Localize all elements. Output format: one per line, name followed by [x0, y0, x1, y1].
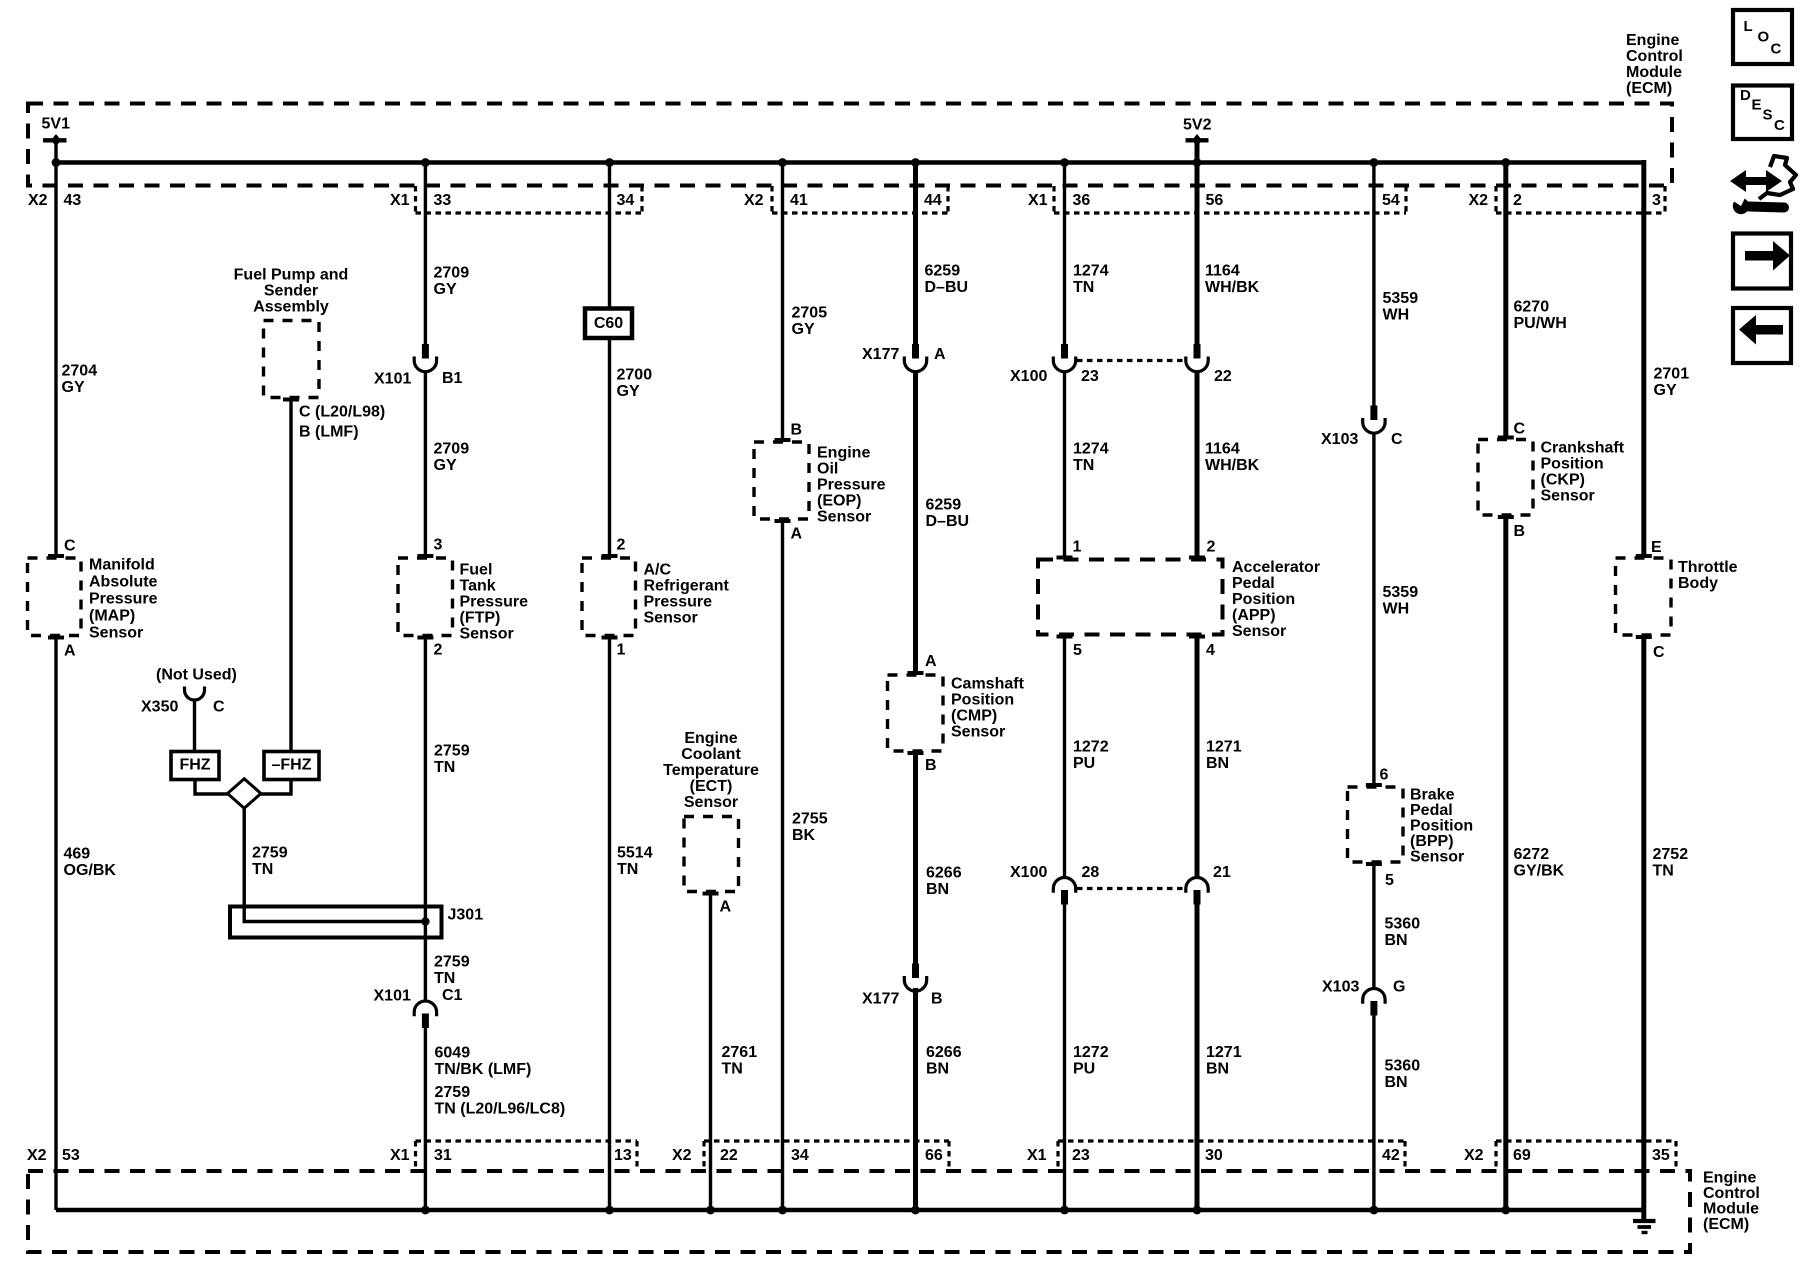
junction dot top bus x=1373.9 — [1370, 158, 1379, 167]
svg-text:2700: 2700 — [617, 367, 653, 384]
svg-text:B: B — [925, 757, 937, 774]
svg-text:Engine: Engine — [684, 730, 737, 747]
junction dot top bus x=1505.8 — [1501, 158, 1510, 167]
svg-text:TN: TN — [434, 759, 455, 776]
svg-text:G: G — [1393, 979, 1405, 996]
wire 6259 D-BU / 6266 BN (CMP sensor circuit) x=915.5 y162-345 — [913, 162, 918, 345]
svg-text:BN: BN — [1206, 755, 1229, 772]
svg-text:53: 53 — [62, 1147, 80, 1164]
svg-text:TN: TN — [1653, 863, 1674, 880]
sensor CKP dashed box — [1478, 440, 1533, 516]
svg-text:1: 1 — [1073, 539, 1082, 556]
svg-text:C: C — [1771, 41, 1782, 58]
wire 1274 TN / 1272 PU (APP sensor circuit) x=1064.5 y904.3-1210 — [1063, 904, 1066, 1210]
wire diamond to J301 — [242, 808, 245, 906]
wire 5359 WH / 5360 BN (BPP sensor circuit) x=1373.9 y862-988.5 — [1372, 862, 1375, 989]
connector group dotted outline top 1054-1406 — [1054, 211, 1406, 214]
ECM bottom dashed box (Engine Control Module) — [28, 1171, 1690, 1252]
wire 2700 GY (A/C refrigerant pressure circuit) x=609.5 y162-308.5 — [608, 162, 611, 309]
wire X350 not-used lead x=194.5 y700-751.5 — [193, 700, 196, 752]
wire 2709 GY / 2759 TN (FTP sensor circuit) x=425.4 y635.5-1001 — [424, 636, 427, 1002]
svg-text:66: 66 — [925, 1147, 943, 1164]
svg-text:X177: X177 — [862, 346, 899, 363]
svg-text:5: 5 — [1073, 642, 1082, 659]
node 5V1 terminal bar — [43, 138, 67, 142]
svg-text:B (LMF): B (LMF) — [299, 424, 359, 441]
svg-text:34: 34 — [791, 1147, 809, 1164]
connector X100 28 — [1053, 878, 1075, 893]
svg-text:X1: X1 — [390, 1147, 410, 1164]
ground symbol ECM — [1641, 1210, 1646, 1219]
svg-text:WH/BK: WH/BK — [1205, 457, 1260, 474]
svg-text:31: 31 — [434, 1147, 452, 1164]
sensor FTP dashed box — [398, 558, 453, 636]
ECM top dashed box (Engine Control Module) — [28, 104, 1672, 186]
junction dot top bus x=609.5 — [605, 158, 614, 167]
svg-text:2705: 2705 — [792, 305, 828, 322]
pin tick BPP top — [1366, 783, 1382, 787]
svg-text:Pedal: Pedal — [1410, 802, 1453, 819]
svg-text:2752: 2752 — [1653, 846, 1689, 863]
connector group dotted outline top 772-948 — [772, 211, 948, 214]
svg-text:Coolant: Coolant — [681, 746, 741, 763]
svg-text:5514: 5514 — [617, 845, 653, 862]
svg-text:GY: GY — [434, 457, 457, 474]
svg-text:Fuel: Fuel — [460, 562, 493, 579]
svg-text:6266: 6266 — [926, 1044, 962, 1061]
pin tick AC bottom — [602, 636, 618, 640]
svg-text:Accelerator: Accelerator — [1232, 559, 1320, 576]
connector group dotted outline bottom 1496-1676 — [1496, 1139, 1676, 1142]
svg-text:4: 4 — [1206, 642, 1215, 659]
wire 2700 GY (A/C refrigerant pressure circuit) x=609.5 y338-558 — [608, 338, 611, 558]
svg-text:Module: Module — [1626, 64, 1682, 81]
svg-text:TN (L20/L96/LC8): TN (L20/L96/LC8) — [435, 1101, 566, 1118]
svg-text:1274: 1274 — [1073, 263, 1109, 280]
svg-text:X1: X1 — [1028, 192, 1048, 209]
junction dot bottom bus x=1197 — [1193, 1206, 1202, 1215]
svg-text:2701: 2701 — [1654, 366, 1690, 383]
svg-text:Engine: Engine — [1703, 1170, 1756, 1187]
svg-text:2759: 2759 — [434, 954, 470, 971]
connector X101 B1 — [422, 344, 429, 359]
svg-text:33: 33 — [434, 192, 452, 209]
wire 2704 GY / 469 OG/BK (MAP sensor circuit) x=56 y635.5-1210 — [54, 636, 57, 1211]
svg-text:Sensor: Sensor — [684, 794, 738, 811]
pin tick BPP bottom — [1366, 862, 1382, 866]
svg-text:2709: 2709 — [434, 441, 470, 458]
wire fuel pump sender output x=291 y397.5-751.5 — [289, 398, 292, 752]
pin tick EOP top — [775, 438, 791, 442]
junction dot bottom bus x=1505.8 — [1501, 1206, 1510, 1215]
sensor CMP dashed box — [888, 675, 944, 751]
svg-text:X1: X1 — [1027, 1147, 1047, 1164]
svg-text:C: C — [1514, 421, 1526, 438]
svg-text:(FTP): (FTP) — [460, 610, 501, 627]
svg-text:2761: 2761 — [722, 1044, 758, 1061]
wire 5359 WH / 5360 BN (BPP sensor circuit) x=1373.9 y1015.3-1210 — [1372, 1015, 1375, 1210]
svg-text:E: E — [1651, 539, 1662, 556]
connector X100 23 — [1061, 344, 1068, 359]
svg-text:WH/BK: WH/BK — [1205, 279, 1260, 296]
svg-text:X2: X2 — [1464, 1147, 1484, 1164]
svg-text:2755: 2755 — [792, 811, 828, 828]
svg-text:FHZ: FHZ — [179, 757, 210, 774]
svg-text:6259: 6259 — [925, 263, 961, 280]
svg-text:–FHZ: –FHZ — [272, 757, 312, 774]
component -FHZ box — [264, 752, 319, 780]
pin tick TB bottom — [1636, 635, 1652, 639]
svg-text:C: C — [213, 699, 225, 716]
svg-text:TN/BK (LMF): TN/BK (LMF) — [435, 1061, 532, 1078]
component fuel pump and sender assembly dashed box — [264, 321, 320, 398]
svg-text:A: A — [791, 526, 803, 543]
connector X350 (not used) — [185, 687, 205, 701]
wire FHZ to diamond — [195, 780, 229, 795]
svg-text:L: L — [1744, 18, 1753, 35]
wire 1164 WH/BK / 1271 BN (APP sensor circuit) x=1197 y140-345 — [1195, 140, 1200, 345]
svg-text:Sensor: Sensor — [1232, 623, 1286, 640]
svg-text:X2: X2 — [27, 1147, 47, 1164]
svg-text:1274: 1274 — [1073, 441, 1109, 458]
svg-text:1272: 1272 — [1073, 739, 1109, 756]
pin tick MAP top — [48, 554, 64, 558]
svg-text:X103: X103 — [1322, 979, 1359, 996]
svg-text:(ECM): (ECM) — [1703, 1216, 1749, 1233]
svg-text:6270: 6270 — [1514, 299, 1550, 316]
splice pack J301 box — [230, 907, 442, 938]
svg-text:TN: TN — [722, 1061, 743, 1078]
svg-text:Throttle: Throttle — [1678, 559, 1738, 576]
svg-text:(ECT): (ECT) — [690, 778, 733, 795]
icon wrench — [1749, 207, 1784, 208]
junction dot top bus x=782.5 — [778, 158, 787, 167]
svg-text:Sensor: Sensor — [460, 626, 514, 643]
wire 2761 TN (ECT sensor circuit) x=710.5 y891.5-1210 — [709, 892, 712, 1211]
svg-text:6272: 6272 — [1514, 846, 1550, 863]
splice diamond symbol — [228, 779, 261, 808]
svg-text:C: C — [1653, 644, 1665, 661]
svg-text:1271: 1271 — [1206, 1044, 1242, 1061]
svg-text:D–BU: D–BU — [926, 513, 970, 530]
svg-text:69: 69 — [1513, 1147, 1531, 1164]
wire 2709 GY / 2759 TN (FTP sensor circuit) x=425.4 y371.3-558 — [424, 371, 427, 558]
svg-text:C: C — [1391, 431, 1403, 448]
sensor APP dashed box — [1038, 560, 1223, 635]
connector group dotted outline bottom 1058-1405 — [1058, 1139, 1405, 1142]
pin ticks APP — [1057, 556, 1073, 560]
wire 6259 D-BU / 6266 BN (CMP sensor circuit) x=915.5 y751-963.5 — [913, 751, 918, 964]
node 5V1 diamond tip — [51, 134, 61, 147]
svg-text:Sensor: Sensor — [951, 724, 1005, 741]
wire 6259 D-BU / 6266 BN (CMP sensor circuit) x=915.5 y988-1210 — [913, 988, 918, 1210]
svg-text:Sender: Sender — [264, 283, 318, 300]
svg-text:OG/BK: OG/BK — [64, 862, 117, 879]
connector X103 G — [1363, 989, 1385, 1004]
svg-text:23: 23 — [1081, 368, 1099, 385]
svg-text:GY/BK: GY/BK — [1514, 863, 1565, 880]
connector group dotted outline top 415.5-642 — [416, 211, 643, 214]
svg-text:Sensor: Sensor — [817, 509, 871, 526]
connector X103 C — [1370, 406, 1377, 421]
svg-text:2709: 2709 — [434, 265, 470, 282]
svg-text:WH: WH — [1383, 601, 1410, 618]
svg-text:Pressure: Pressure — [817, 477, 886, 494]
svg-text:TN: TN — [434, 970, 455, 987]
svg-text:Control: Control — [1626, 48, 1683, 65]
wire 2700 GY (A/C refrigerant pressure circuit) x=609.5 y635.5-1210 — [608, 636, 611, 1211]
svg-text:5: 5 — [1385, 872, 1394, 889]
svg-text:X101: X101 — [374, 988, 411, 1005]
icon forward arrow box — [1733, 234, 1791, 289]
svg-text:1271: 1271 — [1206, 739, 1242, 756]
wire 2704 GY / 469 OG/BK (MAP sensor circuit) x=56 y140-558 — [54, 140, 57, 558]
connector X100 21 — [1186, 878, 1208, 893]
svg-text:56: 56 — [1206, 192, 1224, 209]
svg-text:2759: 2759 — [435, 1084, 471, 1101]
svg-text:PU: PU — [1073, 755, 1095, 772]
svg-text:2: 2 — [434, 642, 443, 659]
svg-text:21: 21 — [1213, 864, 1231, 881]
connector X100 22 — [1194, 344, 1201, 359]
junction dot bottom bus x=1064.5 — [1060, 1206, 1069, 1215]
svg-text:X101: X101 — [374, 371, 411, 388]
svg-text:GY: GY — [792, 321, 815, 338]
svg-text:(APP): (APP) — [1232, 607, 1276, 624]
svg-text:Absolute: Absolute — [89, 574, 158, 591]
svg-text:BN: BN — [926, 881, 949, 898]
pin tick MAP bottom — [48, 636, 64, 640]
svg-text:A: A — [934, 346, 946, 363]
junction dot bottom bus x=710.5 — [706, 1206, 715, 1215]
junction dot top bus x=56 — [52, 158, 61, 167]
junction dot bottom bus x=915.5 — [911, 1206, 920, 1215]
junction dot top bus x=915.5 — [911, 158, 920, 167]
svg-text:GY: GY — [1654, 382, 1677, 399]
svg-text:44: 44 — [924, 192, 942, 209]
svg-text:X100: X100 — [1010, 864, 1047, 881]
svg-text:2759: 2759 — [434, 743, 470, 760]
svg-text:C60: C60 — [594, 315, 623, 332]
svg-text:23: 23 — [1072, 1147, 1090, 1164]
svg-text:2: 2 — [1207, 539, 1216, 556]
connector X100 dotted link top — [1077, 359, 1185, 362]
pin tick AC top — [602, 554, 618, 558]
svg-text:Pressure: Pressure — [644, 594, 713, 611]
wire 1274 TN / 1272 PU (APP sensor circuit) x=1064.5 y162-345 — [1063, 162, 1066, 345]
svg-text:6266: 6266 — [926, 865, 962, 882]
svg-text:Manifold: Manifold — [89, 557, 155, 574]
svg-text:43: 43 — [64, 192, 82, 209]
svg-text:A: A — [64, 643, 76, 660]
svg-text:(CKP): (CKP) — [1541, 472, 1585, 489]
svg-text:C1: C1 — [442, 987, 463, 1004]
svg-text:2704: 2704 — [62, 363, 98, 380]
svg-text:Pressure: Pressure — [460, 594, 529, 611]
component FHZ box — [171, 752, 219, 780]
wire -FHZ to diamond — [260, 780, 291, 795]
junction dot bottom bus x=425.4 — [421, 1206, 430, 1215]
svg-text:J301: J301 — [448, 907, 484, 924]
svg-text:D–BU: D–BU — [925, 279, 969, 296]
svg-text:3: 3 — [1652, 192, 1661, 209]
svg-text:B: B — [791, 422, 803, 439]
svg-text:TN: TN — [1073, 279, 1094, 296]
svg-text:36: 36 — [1073, 192, 1091, 209]
svg-text:A: A — [720, 899, 732, 916]
svg-text:B1: B1 — [442, 370, 463, 387]
wire 1164 WH/BK / 1271 BN (APP sensor circuit) x=1197 y371.3-559.5 — [1195, 371, 1200, 559]
svg-text:(ECM): (ECM) — [1626, 80, 1672, 97]
svg-text:BK: BK — [792, 827, 816, 844]
connector group dotted outline bottom 704-949 — [704, 1139, 949, 1142]
svg-text:TN: TN — [252, 861, 273, 878]
wire 5359 WH / 5360 BN (BPP sensor circuit) x=1373.9 y162-405.5 — [1372, 162, 1375, 406]
svg-text:6259: 6259 — [926, 497, 962, 514]
pin tick FTP bottom — [417, 636, 433, 640]
wire 5359 WH / 5360 BN (BPP sensor circuit) x=1373.9 y432.8-787 — [1372, 433, 1375, 787]
junction dot top bus x=1197 — [1193, 158, 1202, 167]
pin tick CKP bottom — [1498, 515, 1514, 519]
wire 6270 PU/WH / 6272 GY/BK (CKP sensor circuit) x=1505.8 y162-439.5 — [1503, 162, 1508, 440]
svg-text:X2: X2 — [672, 1147, 692, 1164]
svg-text:1272: 1272 — [1073, 1044, 1109, 1061]
svg-text:Engine: Engine — [817, 445, 870, 462]
svg-text:X2: X2 — [1469, 192, 1489, 209]
svg-text:3: 3 — [434, 537, 443, 554]
svg-text:Pedal: Pedal — [1232, 575, 1275, 592]
node 5V2 terminal bar — [1186, 138, 1209, 142]
svg-text:X177: X177 — [862, 991, 899, 1008]
svg-text:Sensor: Sensor — [89, 625, 143, 642]
svg-text:Body: Body — [1678, 575, 1718, 592]
svg-text:Fuel Pump and: Fuel Pump and — [234, 267, 349, 284]
sensor A/C refrigerant pressure dashed box — [582, 558, 636, 636]
icon harness outline hook — [1759, 156, 1796, 199]
svg-text:Oil: Oil — [817, 461, 838, 478]
junction dot J301 — [421, 917, 429, 925]
svg-text:BN: BN — [926, 1061, 949, 1078]
icon DESC box — [1733, 86, 1792, 140]
connector X101 C1 — [414, 1001, 436, 1016]
svg-text:41: 41 — [790, 192, 808, 209]
pin tick EOP bottom — [775, 519, 791, 523]
pin tick CMP top — [908, 671, 924, 675]
svg-text:Camshaft: Camshaft — [951, 676, 1025, 693]
wire 2709 GY / 2759 TN (FTP sensor circuit) x=425.4 y1026.7-1210 — [424, 1027, 427, 1210]
connector X177 B — [912, 964, 919, 979]
svg-text:(MAP): (MAP) — [89, 608, 135, 625]
splice pack J301 internal bus — [244, 907, 424, 922]
svg-text:B: B — [1514, 523, 1526, 540]
svg-text:GY: GY — [434, 281, 457, 298]
junction dot top bus x=425.4 — [421, 158, 430, 167]
svg-text:1164: 1164 — [1205, 263, 1240, 280]
wire 2705 GY / 2755 BK (EOP sensor circuit) x=782.5 y519-1210 — [781, 519, 784, 1210]
wire 2701 GY / 2752 TN (throttle body circuit) x=1643.8 y635-1210 — [1641, 635, 1646, 1210]
pin tick fuel pump bottom — [283, 398, 299, 402]
svg-text:42: 42 — [1382, 1147, 1400, 1164]
pin tick ECT bottom — [703, 892, 719, 896]
svg-text:Tank: Tank — [460, 578, 496, 595]
wire 6259 D-BU / 6266 BN (CMP sensor circuit) x=915.5 y371.3-675 — [913, 371, 918, 675]
svg-text:C: C — [64, 538, 76, 555]
svg-text:Position: Position — [951, 692, 1014, 709]
svg-text:6: 6 — [1380, 767, 1389, 784]
svg-text:Control: Control — [1703, 1185, 1760, 1202]
svg-text:D: D — [1740, 87, 1751, 104]
connector group dotted outline bottom 415.5-637 — [416, 1139, 638, 1142]
wire 1274 TN / 1272 PU (APP sensor circuit) x=1064.5 y371.3-559.5 — [1063, 371, 1066, 559]
svg-text:1164: 1164 — [1205, 441, 1240, 458]
svg-text:X103: X103 — [1321, 431, 1358, 448]
svg-text:S: S — [1763, 107, 1773, 124]
svg-text:Position: Position — [1410, 818, 1473, 835]
svg-text:X1: X1 — [390, 192, 410, 209]
svg-text:5360: 5360 — [1385, 916, 1421, 933]
svg-text:C: C — [1774, 117, 1785, 134]
svg-text:Module: Module — [1703, 1201, 1759, 1218]
svg-text:PU/WH: PU/WH — [1514, 315, 1567, 332]
junction dot bottom bus x=1373.9 — [1370, 1206, 1379, 1215]
pin tick FTP top — [417, 554, 433, 558]
svg-text:34: 34 — [617, 192, 635, 209]
svg-text:(EOP): (EOP) — [817, 493, 861, 510]
svg-text:X350: X350 — [141, 699, 178, 716]
svg-text:(CMP): (CMP) — [951, 708, 997, 725]
svg-text:X2: X2 — [744, 192, 764, 209]
pin tick CKP top — [1498, 436, 1514, 440]
svg-text:13: 13 — [614, 1147, 632, 1164]
svg-text:22: 22 — [720, 1147, 738, 1164]
svg-text:5V2: 5V2 — [1183, 117, 1212, 134]
sensor BPP dashed box — [1348, 787, 1404, 862]
svg-text:(Not Used): (Not Used) — [156, 667, 237, 684]
svg-text:Position: Position — [1232, 591, 1295, 608]
svg-text:28: 28 — [1082, 864, 1100, 881]
svg-text:X2: X2 — [28, 192, 48, 209]
junction dot bottom bus x=782.5 — [778, 1206, 787, 1215]
connector X177 A — [912, 344, 919, 359]
svg-text:22: 22 — [1214, 368, 1232, 385]
svg-text:O: O — [1758, 29, 1770, 46]
svg-text:Position: Position — [1541, 456, 1604, 473]
node 5V2 diamond tip — [1192, 134, 1202, 147]
svg-text:WH: WH — [1383, 307, 1410, 324]
junction dot bottom bus x=609.5 — [605, 1206, 614, 1215]
wire 5V reference bus (top horizontal) — [54, 160, 1644, 165]
svg-text:54: 54 — [1382, 192, 1400, 209]
svg-text:Temperature: Temperature — [663, 762, 759, 779]
svg-text:A: A — [925, 653, 937, 670]
svg-text:6049: 6049 — [435, 1045, 471, 1062]
wire 2709 GY / 2759 TN (FTP sensor circuit) x=425.4 y162-345 — [424, 162, 427, 345]
svg-text:2759: 2759 — [252, 845, 288, 862]
svg-text:5V1: 5V1 — [42, 116, 71, 133]
svg-text:35: 35 — [1652, 1147, 1670, 1164]
svg-text:GY: GY — [617, 383, 640, 400]
svg-text:A/C: A/C — [644, 562, 672, 579]
junction dot top bus x=1064.5 — [1060, 158, 1069, 167]
svg-text:Crankshaft: Crankshaft — [1541, 440, 1625, 457]
svg-text:Sensor: Sensor — [1541, 488, 1595, 505]
svg-text:BN: BN — [1385, 1074, 1408, 1091]
svg-text:X100: X100 — [1010, 368, 1047, 385]
svg-text:2: 2 — [617, 537, 626, 554]
svg-text:C (L20/L98): C (L20/L98) — [299, 404, 385, 421]
svg-text:30: 30 — [1205, 1147, 1223, 1164]
wire 6270 PU/WH / 6272 GY/BK (CKP sensor circuit) x=1505.8 y515-1210 — [1503, 515, 1508, 1210]
